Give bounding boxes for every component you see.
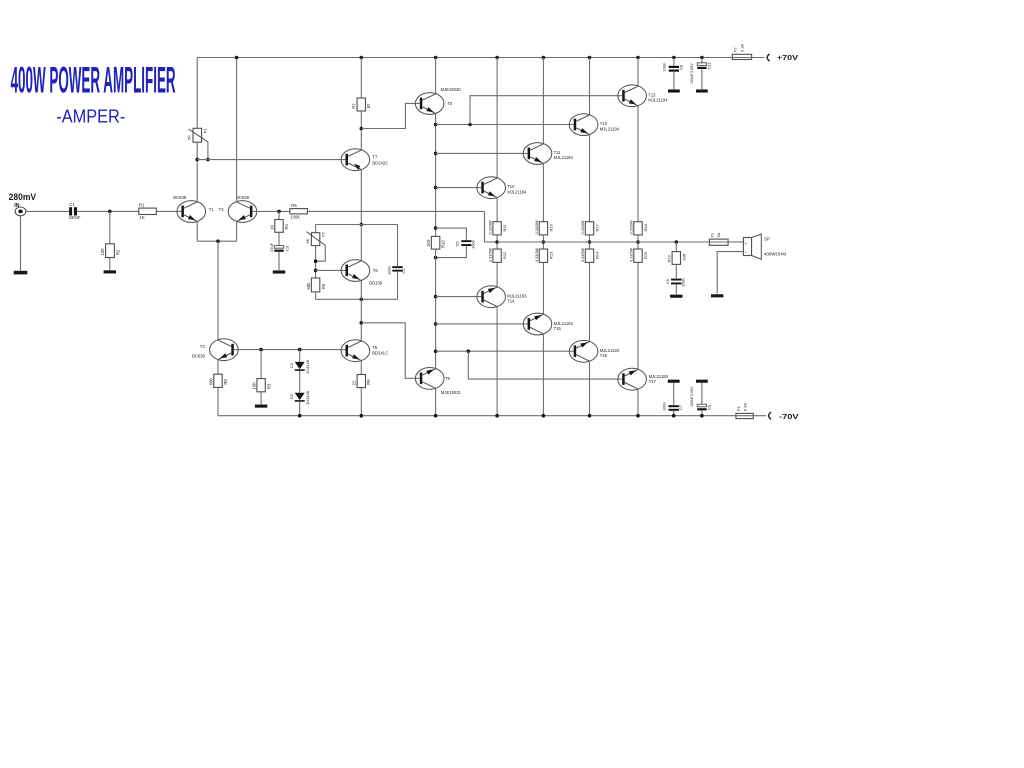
node col2 on +rail	[495, 56, 499, 60]
svg-text:C5: C5	[454, 241, 459, 247]
svg-text:+70V: +70V	[777, 53, 799, 62]
wire junction to D1	[299, 350, 301, 362]
node D2 on rail	[298, 414, 302, 418]
transistor T3 BC639 (mirrored)	[228, 201, 257, 223]
svg-text:MJL21194: MJL21194	[507, 189, 527, 194]
wire bias top rail	[316, 224, 398, 226]
wire tap to T8 base	[361, 103, 420, 128]
wire T5 emitter to R9	[360, 361, 362, 375]
wire R15 to output rail	[589, 235, 591, 249]
wire R19 to C6	[675, 264, 677, 278]
node P1 wiper	[206, 158, 210, 162]
wire T11 emitter to R13	[542, 163, 544, 221]
wire to T12 base	[436, 124, 574, 126]
fuse F1 5A	[709, 239, 728, 245]
node R3 junction	[259, 348, 263, 352]
svg-text:T5: T5	[372, 345, 378, 350]
wire rail down to P1	[196, 58, 198, 129]
wire T17 collector to -rail	[637, 389, 639, 416]
svg-text:R11: R11	[502, 224, 507, 232]
wire -70V bottom rail	[218, 415, 766, 417]
wire P2 bottom to R6	[315, 246, 317, 278]
svg-text:C9: C9	[706, 404, 711, 410]
wire to T16 base	[436, 350, 574, 352]
svg-text:R7: R7	[352, 103, 357, 109]
svg-text:T7: T7	[372, 155, 378, 160]
wire T13 emitter to R17	[637, 106, 639, 222]
wire T16 collector to -rail	[589, 361, 591, 416]
wire R8 to -rail	[217, 387, 219, 415]
wire T4 emitter to R8	[217, 360, 219, 375]
resistor R19 10R zobel	[672, 252, 680, 265]
wire PNP base column	[435, 249, 437, 369]
wire R2 to ground	[109, 258, 111, 271]
wire +70V top rail	[197, 57, 764, 59]
speaker SP 400W/OHM	[743, 238, 751, 256]
svg-text:R18: R18	[643, 223, 648, 231]
svg-text:100n: 100n	[386, 266, 391, 275]
node C7 on -rail	[672, 414, 676, 418]
wire F1 to speaker	[728, 241, 743, 243]
svg-text:47uF: 47uF	[269, 242, 274, 252]
node R7 top on rail	[360, 56, 364, 60]
node T6 base junction	[314, 269, 318, 273]
svg-text:400WOHM: 400WOHM	[764, 251, 787, 256]
transistor T1 BC639	[177, 201, 206, 223]
svg-text:R19: R19	[667, 254, 672, 262]
node R10 bottom	[434, 256, 438, 260]
wire T6 collector	[360, 225, 362, 261]
capacitor C6 100n zobel	[671, 279, 682, 281]
resistor R6 680	[311, 278, 319, 292]
svg-text:BC639: BC639	[192, 354, 205, 359]
svg-text:R4: R4	[284, 223, 289, 229]
svg-text:MJL21194: MJL21194	[648, 98, 668, 103]
wire C6 to ground	[675, 285, 677, 295]
wire D1 to D2	[299, 371, 301, 393]
svg-text:R15: R15	[643, 251, 648, 259]
wire R1 to T1 base	[156, 210, 181, 212]
node C9 on -rail	[700, 414, 704, 418]
wire C8 to ground	[673, 72, 675, 89]
svg-text:1N4148: 1N4148	[305, 390, 310, 405]
svg-text:R17: R17	[595, 223, 600, 231]
svg-text:T4: T4	[200, 344, 206, 349]
potentiometer P2 5K	[311, 233, 319, 246]
wire ground to C7	[673, 383, 675, 405]
svg-text:T3: T3	[219, 207, 225, 212]
svg-text:F3: F3	[736, 406, 741, 411]
node bias bottom	[360, 298, 364, 302]
svg-text:5K: 5K	[187, 135, 192, 140]
svg-text:C3: C3	[284, 245, 289, 251]
node tail junction	[216, 239, 220, 243]
svg-text:0.33/5W: 0.33/5W	[535, 220, 539, 235]
svg-text:R6: R6	[321, 283, 326, 289]
node T3 collector on rail	[235, 56, 239, 60]
transistor T4 BC639 (mirrored)	[210, 339, 239, 361]
wire R3 to ground	[260, 392, 262, 405]
node T9 base tap	[360, 321, 364, 325]
svg-text:MJE15030: MJE15030	[441, 87, 462, 92]
wire output rail	[497, 241, 709, 243]
ground C3	[273, 270, 285, 273]
svg-text:5K: 5K	[305, 238, 310, 243]
ground R3	[255, 405, 267, 408]
svg-text:BD139: BD139	[369, 281, 382, 286]
node T10 base tap	[434, 186, 438, 190]
svg-text:0.33/5W: 0.33/5W	[581, 247, 585, 262]
wire C2 bottom	[397, 272, 399, 300]
svg-text:BD242C: BD242C	[372, 160, 388, 165]
svg-text:T9: T9	[445, 376, 451, 381]
svg-text:T6: T6	[373, 268, 379, 273]
node P1 bottom	[195, 158, 199, 162]
diode D1 1N4148	[295, 362, 305, 369]
wire P1 bottom to T1 collector	[196, 142, 198, 202]
connector -70V	[769, 412, 771, 419]
wire rail to R7	[360, 58, 362, 99]
wire T1 emitter	[196, 221, 198, 241]
node col4 output	[588, 240, 592, 244]
transistor T11 MJL21194	[523, 143, 552, 165]
wire R5 to output node (feedback)	[307, 210, 484, 212]
svg-text:C8: C8	[678, 64, 683, 70]
svg-text:BC639: BC639	[236, 195, 249, 200]
ground speaker	[711, 294, 723, 297]
svg-text:100uF/100V: 100uF/100V	[690, 63, 694, 84]
wire junction to R4	[278, 211, 280, 219]
svg-text:SP: SP	[764, 237, 770, 242]
svg-text:T1: T1	[209, 207, 215, 212]
wire C1 to R1	[77, 210, 139, 212]
svg-text:330nF: 330nF	[69, 215, 81, 220]
node col3 on -rail	[542, 414, 546, 418]
resistor R8 680	[214, 374, 222, 387]
node C11 on +rail	[700, 56, 704, 60]
wire C9 to -rail	[701, 410, 703, 415]
capacitor C11 100uF/100V electrolytic	[697, 63, 706, 66]
ground C7	[668, 380, 680, 383]
svg-text:MJL21194: MJL21194	[600, 126, 620, 131]
svg-text:R1: R1	[139, 203, 145, 208]
transistor T6 BD139	[341, 260, 370, 282]
ground input	[14, 271, 28, 275]
wire to T15 base	[436, 323, 528, 325]
resistor R3 10K	[257, 379, 265, 392]
wire jack to C1	[26, 210, 69, 212]
resistor R12 0.33/5W	[493, 249, 501, 262]
fuse F2 6.3A	[732, 54, 751, 59]
node col3 on +rail	[542, 56, 546, 60]
wire rail to T12 collector	[589, 58, 591, 116]
svg-text:100uF/100V: 100uF/100V	[690, 386, 694, 407]
svg-text:6.3A: 6.3A	[739, 43, 744, 52]
transistor T14 MJL21193	[477, 286, 506, 308]
svg-text:5A: 5A	[716, 232, 721, 237]
capacitor C3 47uF electrolytic	[274, 246, 283, 249]
node col4 on +rail	[588, 56, 592, 60]
svg-text:0.33/5W: 0.33/5W	[629, 220, 633, 235]
transistor T8 MJE15030	[415, 93, 444, 115]
node T9 on -rail	[434, 414, 438, 418]
wire to T17 base	[468, 351, 622, 379]
wire rail to T13 collector	[637, 58, 639, 87]
wire T3 emitter	[236, 221, 238, 241]
svg-text:-70V: -70V	[779, 412, 800, 421]
svg-text:R12: R12	[502, 251, 507, 259]
capacitor C9 100uF/100V electrolytic	[697, 404, 706, 407]
transistor T12 MJL21194	[569, 114, 598, 136]
transistor T10 MJL21194	[477, 177, 506, 199]
svg-text:D2: D2	[289, 393, 294, 399]
svg-text:C1: C1	[69, 202, 75, 207]
node T8 collector on rail	[434, 56, 438, 60]
wire R17 to output rail	[637, 235, 639, 249]
svg-text:10K: 10K	[100, 248, 105, 256]
wire R18 to T17 emitter	[637, 262, 639, 369]
wire R16 to T16 emitter	[589, 262, 591, 341]
resistor R15 0.33/5W	[585, 222, 593, 235]
wire T4 base line	[234, 349, 346, 351]
node T17 base tap	[467, 349, 471, 353]
svg-text:22: 22	[352, 380, 357, 385]
svg-text:F2: F2	[733, 47, 738, 52]
svg-text:100K: 100K	[290, 214, 300, 219]
svg-text:100n: 100n	[662, 402, 667, 411]
wire T3 base to R5	[252, 210, 289, 212]
transistor T16 MJL21193	[569, 340, 598, 362]
svg-text:0.33/5W: 0.33/5W	[489, 247, 493, 262]
resistor R4 1K	[275, 220, 283, 233]
node T14 base tap	[434, 295, 438, 299]
node col2 on -rail	[495, 414, 499, 418]
transistor T5 BD241C	[341, 340, 370, 362]
node R9 on rail	[360, 414, 364, 418]
node col5 on +rail	[636, 56, 640, 60]
wire to T6 base	[316, 269, 346, 271]
node T13 base tap	[468, 123, 472, 127]
svg-text:R13: R13	[548, 251, 553, 259]
fuse F3 6.3A	[736, 413, 753, 418]
svg-text:C6: C6	[665, 278, 670, 284]
node T15 base tap	[434, 322, 438, 326]
transistor T9 MJE15031	[415, 368, 444, 390]
svg-text:R3: R3	[266, 383, 271, 389]
wire to T10 base	[436, 187, 482, 189]
node T16 base tap	[434, 349, 438, 353]
svg-text:680: 680	[306, 282, 311, 290]
ground C11	[696, 89, 708, 92]
wire R7 to T7 collector	[360, 111, 362, 150]
capacitor C2 100n	[392, 266, 402, 268]
resistor R13 0.33/5W	[539, 222, 547, 235]
wire T14 collector to -rail	[496, 307, 498, 416]
resistor R16 0.33/5W	[585, 249, 593, 262]
wire P1 wiper down	[207, 142, 209, 160]
svg-text:400W POWER AMPLIFIER: 400W POWER AMPLIFIER	[11, 58, 176, 100]
svg-text:C2: C2	[401, 268, 406, 274]
svg-text:P2: P2	[321, 231, 326, 237]
wire rail to T8 collector	[435, 58, 437, 94]
svg-text:1K: 1K	[140, 215, 145, 220]
wire T15 collector to -rail	[542, 334, 544, 416]
ground C8	[668, 89, 680, 92]
wire to T11 base	[436, 152, 528, 154]
node input-R2 junction	[108, 210, 112, 214]
wire to T14 base	[436, 296, 482, 298]
svg-text:R8: R8	[223, 379, 228, 385]
node diode junction	[298, 348, 302, 352]
ground zobel	[670, 295, 682, 298]
wire T6 emitter	[360, 280, 362, 299]
node col5 on -rail	[636, 414, 640, 418]
wire R12 to T14 emitter	[496, 262, 498, 287]
svg-text:280mV: 280mV	[9, 192, 37, 203]
wire C2 top	[397, 225, 399, 266]
wire T10 emitter to R11	[496, 198, 498, 222]
wire R14 to T15 emitter	[542, 262, 544, 314]
wire R9 to -rail	[360, 388, 362, 416]
wire T3 collector to top rail	[236, 58, 238, 202]
node T11 base tap	[434, 152, 438, 156]
node zobel junction	[675, 240, 679, 244]
svg-text:T17: T17	[649, 379, 657, 384]
svg-text:C11: C11	[706, 62, 711, 70]
ground R2	[104, 270, 116, 273]
svg-text:1K: 1K	[269, 225, 274, 230]
svg-text:680: 680	[208, 377, 213, 385]
diode D2 1N4148	[295, 393, 305, 400]
wire rail to T11 collector	[542, 58, 544, 144]
wire tail to T4 collector	[217, 241, 219, 340]
resistor R10 1K5	[431, 236, 439, 249]
wire junction to R3	[260, 350, 262, 379]
svg-text:+: +	[745, 241, 748, 246]
svg-text:D1: D1	[289, 362, 294, 368]
wire rail to T10 collector	[496, 58, 498, 179]
connector J1 input jack	[15, 207, 26, 216]
node col5 output	[636, 240, 640, 244]
svg-text:MJE15031: MJE15031	[441, 390, 462, 395]
wire to T13 base	[470, 96, 622, 125]
capacitor C7 100n	[669, 405, 679, 407]
wire C5 branch bottom	[436, 246, 467, 257]
svg-text:R2: R2	[115, 249, 120, 255]
svg-text:T15: T15	[554, 326, 562, 331]
wire T9 emitter to -rail	[435, 388, 437, 415]
wire C5 branch top	[436, 228, 467, 240]
svg-text:0.33/5W: 0.33/5W	[629, 247, 633, 262]
wire R6 to bias bottom	[315, 292, 317, 299]
node col4 on -rail	[588, 414, 592, 418]
svg-text:100n: 100n	[680, 278, 685, 287]
resistor R18 0.33/5W	[634, 249, 642, 262]
node T3 base junction	[277, 210, 281, 214]
node bias top	[360, 223, 364, 227]
wire to T7 base	[197, 159, 345, 161]
node wiper junction	[314, 259, 318, 263]
resistor R11 0.33/5W	[493, 222, 501, 235]
capacitor C5 100n	[461, 240, 471, 242]
wire rail to C8	[673, 58, 675, 66]
wire bias bottom rail	[316, 298, 398, 300]
wire C7 to -rail	[673, 411, 675, 416]
wire R13 to output rail	[542, 235, 544, 249]
resistor R2 10K	[106, 244, 115, 258]
svg-text:T14: T14	[507, 299, 515, 304]
capacitor C8 100n	[669, 66, 679, 68]
resistor R1 1K	[139, 208, 157, 214]
transistor T15 MJL21193	[523, 313, 552, 335]
svg-text:-AMPER-: -AMPER-	[56, 105, 125, 126]
transistor T7 BD242C	[341, 149, 370, 171]
svg-text:R9: R9	[366, 379, 371, 385]
svg-text:F1: F1	[709, 232, 714, 237]
wire ground to C9	[701, 383, 703, 405]
svg-text:10R: 10R	[681, 254, 686, 261]
wire C11 to ground	[701, 70, 703, 90]
wire rail to C11	[701, 58, 703, 63]
svg-text:T16: T16	[600, 353, 608, 358]
node col2 output	[495, 240, 499, 244]
svg-text:1N4148: 1N4148	[305, 359, 310, 374]
svg-text:C7: C7	[678, 404, 683, 410]
transistor T13 MJL21194	[618, 85, 647, 107]
svg-text:1K5: 1K5	[426, 239, 431, 247]
resistor R9 22	[357, 375, 365, 388]
resistor R5 100K feedback	[290, 209, 308, 214]
svg-text:BD241C: BD241C	[372, 350, 388, 355]
svg-text:0.33/5W: 0.33/5W	[489, 220, 493, 235]
node col3 output	[542, 240, 546, 244]
node C8 on +rail	[672, 56, 676, 60]
svg-text:0.33/5W: 0.33/5W	[535, 247, 539, 262]
resistor R14 0.33/5W	[539, 249, 547, 262]
node R10 top	[434, 226, 438, 230]
wire T12 emitter to R15	[589, 135, 591, 222]
wire jack to ground	[20, 216, 22, 271]
resistor R17 0.33/5W	[634, 222, 642, 235]
potentiometer P1 5K	[193, 128, 202, 142]
svg-text:82: 82	[366, 103, 371, 108]
resistor R7 82	[357, 98, 365, 111]
wire T8 emitter column	[435, 113, 437, 236]
capacitor C1 330nF	[69, 207, 72, 215]
wire R11 to output rail	[496, 235, 498, 249]
transistor T17 MJL21193	[618, 368, 647, 390]
svg-text:R5: R5	[291, 203, 297, 208]
svg-text:0.33/5W: 0.33/5W	[581, 220, 585, 235]
ground C9	[696, 380, 708, 383]
wire C3 to ground	[278, 252, 280, 270]
wire junction to R2	[109, 211, 111, 243]
svg-text:10K: 10K	[252, 382, 257, 390]
svg-text:T8: T8	[447, 101, 453, 106]
wire speaker return	[717, 252, 743, 294]
wire emitters joined	[197, 240, 236, 242]
svg-text:100n: 100n	[470, 240, 475, 249]
node T8 base tap	[360, 127, 364, 131]
svg-text:BC639: BC639	[173, 195, 186, 200]
svg-text:R14: R14	[595, 251, 600, 259]
svg-text:MJL21194: MJL21194	[554, 155, 574, 160]
wire bias bottom to T5 collector	[360, 299, 362, 341]
svg-text:R16: R16	[548, 223, 553, 231]
wire P2 wiper loop	[316, 245, 326, 261]
wire bias left top	[315, 225, 317, 233]
wire junction to R19	[675, 242, 677, 252]
